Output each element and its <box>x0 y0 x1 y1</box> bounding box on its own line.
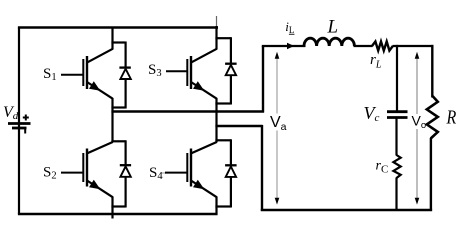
resistor R branch top wire <box>431 45 433 98</box>
wire filter bottom rail <box>261 209 432 212</box>
voltage arrow Vo <box>415 52 420 205</box>
capacitor C branch top wire <box>396 45 398 111</box>
resistor rC <box>393 155 400 178</box>
svg-text:S3: S3 <box>148 62 162 79</box>
transistor S4 (IGBT) <box>162 142 217 215</box>
svg-text:S4: S4 <box>149 165 163 182</box>
transistor S1 (IGBT) <box>61 27 113 143</box>
svg-text:Vc: Vc <box>364 103 380 124</box>
wire bottom rail of bridge <box>18 213 218 216</box>
label S1 <box>43 66 57 83</box>
battery Vd <box>8 115 31 134</box>
wire filter input top vertical <box>262 46 264 113</box>
diode D2 <box>111 140 131 207</box>
inductor L <box>304 38 354 46</box>
resistor R <box>427 96 438 139</box>
label Vc <box>364 103 380 124</box>
label Vd <box>3 104 19 122</box>
svg-text:L: L <box>327 17 339 38</box>
capacitor C branch bottom wire <box>395 178 397 212</box>
wire filter input bottom vertical <box>261 125 263 211</box>
wire mid rail upper (bridge output a) <box>111 110 264 112</box>
svg-text:Vd: Vd <box>3 104 19 122</box>
diode D3 <box>215 37 236 104</box>
label rL <box>370 52 382 71</box>
svg-text:S1: S1 <box>43 66 57 83</box>
diode D4 <box>215 139 236 207</box>
resistor rL <box>372 42 393 51</box>
label S4 <box>149 165 163 182</box>
current arrow iL <box>287 43 294 49</box>
svg-text:R: R <box>446 106 457 128</box>
label R <box>446 106 457 128</box>
transistor S3 (IGBT) <box>166 16 217 143</box>
label S2 <box>43 164 57 181</box>
resistor R branch bottom wire <box>430 138 432 211</box>
voltage arrow Va <box>275 52 280 205</box>
label Va <box>270 114 287 133</box>
label L <box>327 17 339 38</box>
capacitor C branch mid wire <box>395 119 397 156</box>
svg-text:iL: iL <box>285 19 294 35</box>
wire top rail of bridge <box>18 26 218 29</box>
wire mid rail lower (bridge output b) <box>215 125 262 127</box>
capacitor C plates <box>387 112 408 118</box>
svg-text:rC: rC <box>376 159 389 176</box>
wire filter top <box>262 45 434 47</box>
label rC <box>376 159 389 176</box>
label S3 <box>148 62 162 79</box>
wire left rail from Vd <box>18 28 20 215</box>
svg-text:rL: rL <box>370 52 382 71</box>
label Vo <box>411 113 426 132</box>
transistor S2 (IGBT) <box>61 142 113 219</box>
label iL <box>285 19 294 35</box>
svg-text:S2: S2 <box>43 164 57 181</box>
diode D1 <box>111 42 130 109</box>
